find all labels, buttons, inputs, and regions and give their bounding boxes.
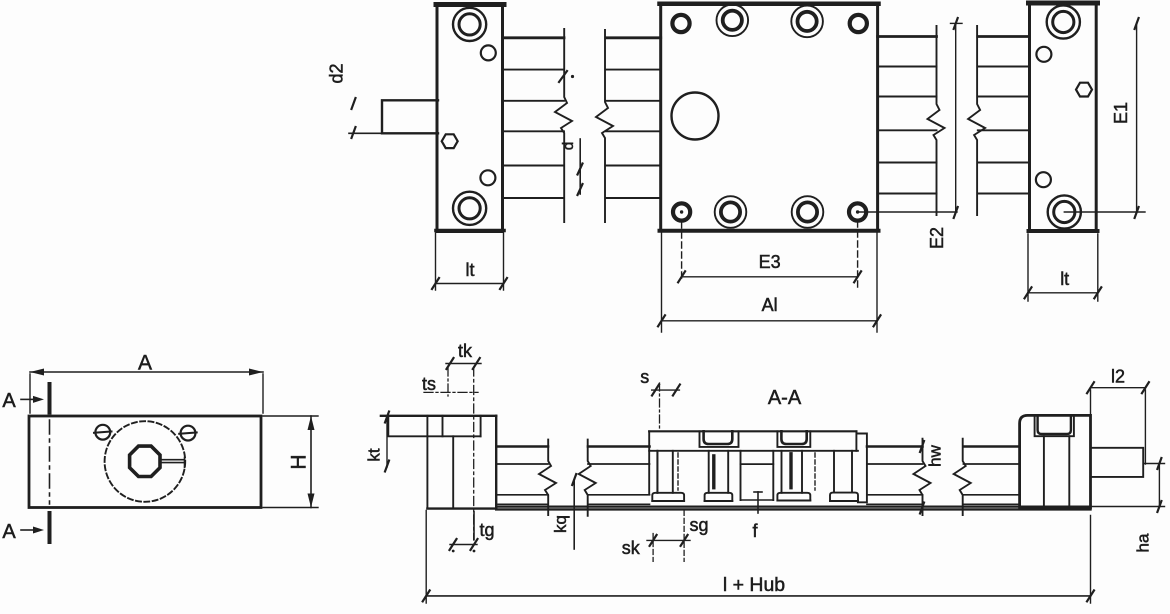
dimension l + Hub — [426, 510, 1090, 603]
dimension tg — [473, 512, 475, 540]
screw left — [95, 425, 110, 440]
dimension line E2 — [955, 23, 957, 212]
svg-text:lt: lt — [466, 260, 475, 280]
roller 2 — [709, 451, 729, 493]
plate hole small bottom-right with center dot — [849, 203, 866, 220]
section break line 1 — [539, 440, 556, 515]
svg-text:ha: ha — [1133, 533, 1152, 552]
svg-text:E2: E2 — [927, 227, 947, 249]
rail section left segment: top line — [497, 445, 548, 448]
dimension lt (right) — [1028, 234, 1098, 301]
section line A-A — [48, 384, 52, 542]
tick on break line (d dim) — [559, 71, 567, 82]
plate bolt top-right — [791, 6, 823, 38]
dimension A — [30, 374, 263, 413]
roller 3 axle — [789, 454, 792, 488]
svg-text:lt: lt — [1060, 269, 1069, 289]
rail break line 4 with zigzag — [968, 26, 985, 215]
left flange step — [388, 416, 480, 437]
right block inner verticals — [1044, 436, 1069, 508]
hex nut left block — [442, 134, 458, 148]
end block left (plan) — [437, 4, 503, 232]
small hole bottom right block — [1036, 172, 1051, 187]
block inner verticals — [426, 416, 428, 509]
roller 2 axle — [712, 456, 715, 488]
plate hole small bottom-left with center dot — [673, 203, 690, 220]
plate hole small top-left — [672, 15, 689, 32]
svg-text:f: f — [752, 521, 758, 541]
bolt bottom right block — [1048, 195, 1081, 228]
svg-text:d: d — [560, 142, 577, 150]
rail break line 2 with zigzag — [596, 30, 613, 222]
screw right — [181, 426, 196, 441]
bolt circle dashed — [105, 421, 186, 502]
big circle on plate — [672, 93, 719, 140]
tk trace line left — [447, 368, 449, 396]
svg-text:Al: Al — [762, 295, 778, 315]
shaft centerline extension — [1143, 463, 1164, 465]
shaft d2 (left spindle end, plan view) — [382, 100, 438, 133]
carriage plate (plan) — [661, 3, 878, 231]
rail section before right block — [963, 445, 1019, 448]
rail base strip continuous — [496, 506, 1090, 508]
dimension l2 — [1091, 390, 1146, 464]
right end block section — [1020, 415, 1091, 507]
rail break line 3 with zigzag — [928, 26, 945, 215]
shaft right section — [1091, 448, 1144, 477]
carriage section: top plate — [649, 430, 856, 432]
roller 4 — [834, 451, 852, 493]
small hole top right block — [1036, 47, 1051, 62]
center octagon (shaft socket) — [130, 446, 160, 476]
dimension kq — [573, 480, 575, 549]
leader from right block bolt to E1 line — [1064, 211, 1145, 213]
plate hole small top-right — [850, 15, 867, 32]
dimension d2 ticks — [349, 132, 382, 134]
bolt top-left block — [453, 8, 486, 41]
svg-text:d2: d2 — [326, 63, 346, 83]
svg-text:H: H — [288, 454, 311, 469]
block right wall — [495, 416, 497, 509]
svg-text:kq: kq — [551, 515, 570, 533]
section arrow top — [21, 398, 34, 400]
roller 1 — [657, 451, 672, 493]
leader from bottom-right hole to E2 line — [858, 211, 957, 213]
svg-text:E1: E1 — [1111, 102, 1131, 124]
dimension E3 — [681, 222, 683, 282]
dimension Al — [662, 233, 878, 332]
dimension line E1 — [1136, 24, 1138, 213]
svg-text:A: A — [138, 352, 152, 375]
section break line 2 — [579, 440, 596, 516]
svg-text:E3: E3 — [759, 252, 781, 272]
svg-text:tk: tk — [458, 341, 473, 361]
slot 2 on plate — [777, 431, 810, 447]
dimension ha — [1158, 464, 1160, 507]
svg-text:hw: hw — [925, 444, 944, 466]
rail section right of carriage — [867, 445, 923, 448]
rail lines segment D — [978, 35, 1030, 38]
hidden edge between rollers 3-4 — [814, 453, 816, 490]
svg-text:ts: ts — [422, 374, 436, 394]
rail section mid segment — [588, 445, 650, 448]
left end block section: top edge — [381, 415, 496, 417]
section break line 3 / hw dim — [914, 439, 931, 515]
svg-text:l2: l2 — [1111, 367, 1125, 387]
end block right (plan) — [1030, 3, 1097, 232]
small hole top — [481, 45, 496, 60]
svg-text:sk: sk — [622, 538, 641, 558]
keyway mark — [161, 458, 185, 468]
right block notch — [1035, 415, 1074, 436]
rail lines segment B — [606, 36, 661, 39]
svg-text:A: A — [2, 521, 16, 543]
plate bolt bottom-left — [715, 196, 747, 228]
small hole bottom — [480, 170, 495, 185]
slot trace line vertical — [473, 367, 475, 540]
hidden edge between rollers 1-2 — [677, 453, 679, 490]
section break line 4 — [954, 439, 971, 515]
dimension kt — [386, 417, 388, 467]
slot 1 on plate — [700, 431, 739, 447]
plate bolt top-left — [717, 4, 749, 36]
block bottom edge — [427, 507, 496, 509]
dimension sk — [652, 534, 654, 562]
middle nut block — [741, 451, 774, 500]
rail lines segment C — [878, 35, 937, 38]
dimension lt (left) — [436, 233, 504, 290]
carriage left wall — [649, 431, 657, 494]
bolt bottom-left block — [453, 192, 486, 225]
svg-text:sg: sg — [689, 515, 708, 535]
svg-text:l + Hub: l + Hub — [723, 574, 785, 596]
dimension H — [263, 416, 318, 508]
rail lines segment A — [504, 36, 564, 39]
svg-text:kt: kt — [364, 448, 383, 462]
svg-text:A: A — [2, 390, 16, 412]
roller 3 — [782, 451, 803, 493]
bolt top right block — [1047, 5, 1080, 38]
svg-text:A-A: A-A — [768, 387, 802, 409]
section arrow bottom — [21, 529, 34, 531]
short dim line right of break — [579, 139, 581, 194]
body rectangle front view — [29, 416, 261, 508]
carriage right wall — [856, 431, 867, 502]
hex nut right block — [1076, 83, 1092, 97]
dimension tk — [446, 363, 481, 365]
plate bolt bottom-right — [792, 196, 824, 228]
dimension sg dashed line — [683, 510, 685, 561]
label f with leader — [757, 492, 759, 513]
rail break line 1 with zigzag — [555, 29, 572, 222]
svg-text:s: s — [640, 367, 649, 387]
svg-text:tg: tg — [479, 520, 494, 540]
